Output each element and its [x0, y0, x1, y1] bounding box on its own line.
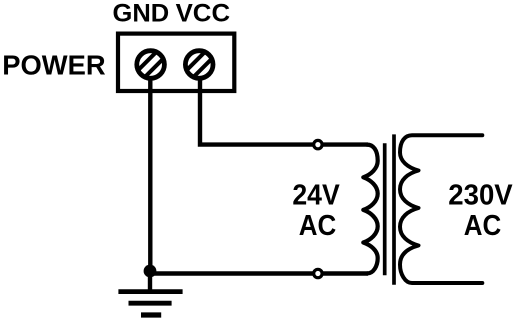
- svg-text:GND: GND: [113, 0, 170, 27]
- svg-text:24V: 24V: [292, 180, 339, 212]
- svg-text:AC: AC: [464, 210, 502, 242]
- svg-text:AC: AC: [299, 210, 337, 242]
- svg-text:VCC: VCC: [176, 0, 231, 27]
- svg-text:230V: 230V: [448, 180, 512, 212]
- svg-text:POWER: POWER: [2, 49, 105, 80]
